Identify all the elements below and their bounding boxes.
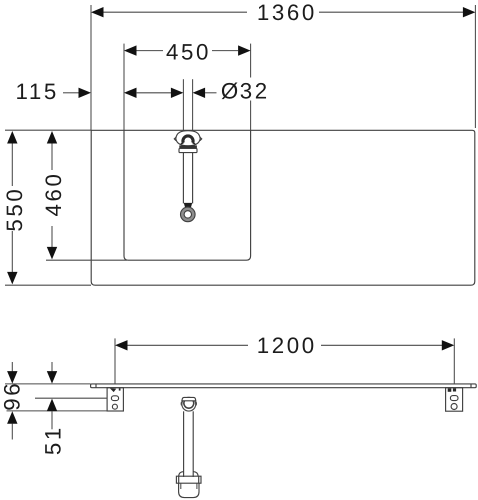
olive side tips <box>174 137 176 141</box>
left bracket <box>107 388 123 411</box>
svg-text:51: 51 <box>40 425 65 455</box>
dim 450 <box>124 39 251 130</box>
trap inner U <box>184 401 194 408</box>
svg-text:32: 32 <box>240 79 270 104</box>
right bracket <box>446 388 463 412</box>
omega seal <box>183 136 193 143</box>
dim 1200 <box>115 333 454 384</box>
dim 96 <box>0 362 25 440</box>
extension line bracket bottom <box>7 410 108 412</box>
svg-text:550: 550 <box>2 187 27 232</box>
svg-text:1200: 1200 <box>257 333 317 358</box>
trap shoulders <box>179 472 199 477</box>
dim 550 <box>2 130 91 285</box>
svg-text:1360: 1360 <box>257 0 317 25</box>
waste olive lens <box>176 131 200 146</box>
svg-text:Ø: Ø <box>221 79 241 104</box>
trap cup <box>179 483 199 497</box>
trap tailpipe <box>183 411 185 477</box>
drain ring <box>182 209 193 220</box>
drain connector black <box>184 203 192 207</box>
trap cap <box>182 397 196 400</box>
side-view plate <box>91 384 477 388</box>
svg-text:450: 450 <box>166 39 211 64</box>
waste nut dark bar <box>179 145 197 148</box>
trap ring nut <box>182 397 196 411</box>
dim diameter 32 <box>193 79 270 104</box>
plate top extension left <box>5 383 91 385</box>
dim 1360 <box>91 0 475 130</box>
basin cutout top-view <box>124 130 251 260</box>
dim 115 <box>16 79 184 104</box>
trap nut side nubs <box>181 402 196 406</box>
dim 460 <box>41 131 66 259</box>
drain pipe top-view <box>183 79 192 203</box>
svg-text:96: 96 <box>0 381 25 411</box>
extension line basin bottom <box>46 259 127 261</box>
svg-text:115: 115 <box>16 79 59 104</box>
dim 51 <box>40 362 65 455</box>
extension line bracket slot <box>35 397 107 399</box>
trap collar band <box>176 476 201 483</box>
svg-text:460: 460 <box>41 171 66 216</box>
console top-view outline <box>91 130 475 285</box>
waste nut lower bar <box>179 148 197 152</box>
